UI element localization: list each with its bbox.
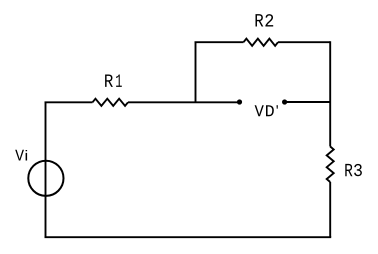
node dot: left terminal of VD' (237, 99, 242, 104)
wire: from R1 to left dot of VD' (128, 101, 240, 103)
wire: right vertical lower (R3 to bottom) (329, 182, 331, 237)
wire: bottom horizontal (45, 236, 332, 238)
label R2 (256, 14, 274, 26)
wire: R2 branch left segment (195, 41, 244, 43)
resistor R2 (244, 39, 279, 46)
label R3 (345, 164, 362, 176)
label R1 (105, 75, 122, 87)
wire: right vertical upper (R2 branch down to R3) (329, 41, 331, 146)
wire: vertical branch up to R2 branch (195, 42, 197, 102)
voltage source Vi (circle) (28, 161, 63, 196)
wire: left vertical from R1 wire down through source to bottom (45, 102, 47, 237)
resistor R3 (327, 147, 334, 183)
label VD' (255, 105, 278, 116)
wire: R2 branch right segment (278, 41, 330, 43)
wire: right dot to right vertical (285, 101, 331, 103)
label Vi (15, 150, 27, 161)
wire: top horizontal from left vertical to R1 (45, 101, 93, 103)
node dot: right terminal of VD' (282, 99, 287, 104)
resistor R1 (93, 99, 129, 106)
